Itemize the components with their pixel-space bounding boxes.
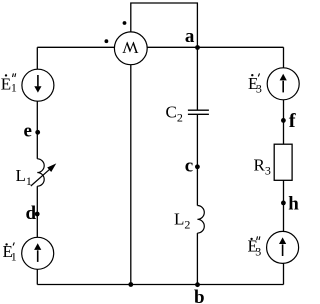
label E1' <box>3 242 17 264</box>
svg-text:f: f <box>289 110 297 132</box>
svg-text:a: a <box>185 26 195 47</box>
wire left branch upper <box>36 47 38 159</box>
wire left branch lower <box>36 186 38 284</box>
svg-text:b: b <box>194 287 205 304</box>
label E1'' <box>1 73 17 94</box>
source E1'' <box>22 69 54 101</box>
inductor L1 variable <box>37 159 44 186</box>
wire middle branch C2 to L2 <box>196 114 198 205</box>
svg-text:1: 1 <box>11 250 17 264</box>
svg-text:3: 3 <box>255 245 261 259</box>
svg-text:1: 1 <box>11 81 17 95</box>
source E3' <box>267 68 299 100</box>
node b <box>194 282 205 304</box>
wattmeter polarity dot left <box>105 39 109 43</box>
capacitor C2 <box>188 110 209 114</box>
svg-text:E: E <box>1 75 11 94</box>
node e <box>24 121 41 142</box>
svg-text:c: c <box>185 155 193 176</box>
node c <box>185 155 200 176</box>
junction wattmeter branch with bottom wire <box>128 282 133 287</box>
source E3'' <box>267 231 299 263</box>
wattmeter polarity dot upper <box>123 21 127 25</box>
node d <box>26 203 40 224</box>
wire wattmeter voltage coil loop <box>131 3 198 48</box>
wire middle branch a to C2 <box>196 48 198 111</box>
wire bottom main horizontal <box>37 284 283 286</box>
resistor R3 <box>274 144 292 180</box>
node h <box>281 194 299 215</box>
svg-text:e: e <box>24 121 32 142</box>
wattmeter W <box>114 32 147 65</box>
inductor L2 <box>197 206 204 234</box>
wire wattmeter current branch vertical <box>130 32 132 285</box>
node a <box>185 26 200 50</box>
node f <box>281 110 297 132</box>
arrow of L1 <box>31 163 57 186</box>
wire middle branch L2 to b <box>196 233 198 285</box>
source E1' <box>22 237 54 269</box>
wire right branch <box>283 47 285 284</box>
svg-text:W: W <box>121 38 138 57</box>
svg-text:d: d <box>26 203 37 224</box>
label E3' <box>248 73 262 95</box>
label E3'' <box>248 236 262 258</box>
svg-text:h: h <box>288 194 299 215</box>
svg-text:3: 3 <box>256 82 262 96</box>
wire top main horizontal node-a row <box>37 46 283 48</box>
